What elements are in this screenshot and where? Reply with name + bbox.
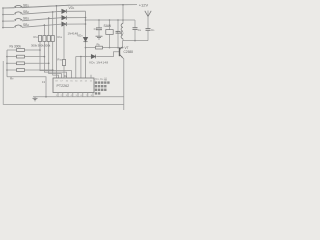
node rail drop <box>122 4 124 6</box>
svg-text:R6 300k: R6 300k <box>10 44 22 48</box>
node bus row4 <box>85 23 87 25</box>
+12V rail wire <box>3 5 137 8</box>
node oscline rail drop <box>122 19 124 21</box>
wire bank line3 <box>7 62 49 64</box>
svg-text:SB1: SB1 <box>23 4 30 8</box>
wire data line V1 <box>40 36 72 79</box>
node SAW-R5line <box>109 47 111 49</box>
wire row2 <box>3 13 15 15</box>
node line4-V4 <box>52 69 54 71</box>
node bank line2 <box>6 56 8 58</box>
node tank C4 <box>134 40 136 42</box>
resistor R8 <box>17 62 25 65</box>
diode bus wire <box>85 11 87 37</box>
resistor R14 (row rect 4) <box>51 36 54 42</box>
diode VD5 <box>91 55 95 59</box>
wire data line V4 <box>53 12 59 78</box>
svg-text:300k 300k 300k: 300k 300k 300k <box>31 44 51 48</box>
wire bank line1 <box>7 49 40 51</box>
pin stubs bottom <box>58 93 93 97</box>
left bank bus wire <box>6 50 8 77</box>
SAW resonator U2 <box>106 20 113 48</box>
node oscline C1 <box>98 19 100 21</box>
pushbutton SB1 <box>14 5 22 8</box>
svg-text:L: L <box>117 30 119 34</box>
ground C1 <box>96 36 103 39</box>
wire pin drop x75.8 <box>75 57 77 79</box>
transistor VT <box>120 47 123 58</box>
oscillator supply line wire <box>86 19 136 21</box>
node oscline SAW <box>109 19 111 21</box>
pin stub top p8 <box>90 75 92 78</box>
wire collector <box>122 41 124 48</box>
wire VD2 to bus <box>66 17 85 19</box>
node line1-V1 <box>39 49 41 51</box>
inductor L <box>121 20 123 41</box>
svg-text:VD5 1N4148: VD5 1N4148 <box>89 60 108 64</box>
node bus row3 <box>85 17 87 19</box>
node row4-bus <box>2 27 4 29</box>
wire tank bottom line <box>123 40 148 42</box>
node R5line-collector <box>122 47 124 49</box>
wire rail drop to tank <box>122 5 124 20</box>
node row1-bus <box>2 7 4 9</box>
svg-text:C2588: C2588 <box>124 50 134 54</box>
wire data line V3 <box>49 18 62 78</box>
node row2-V4 <box>52 11 54 13</box>
resistor R10 <box>62 60 65 66</box>
capacitor C4 <box>133 20 138 41</box>
IC U1 PT2262 <box>53 78 94 93</box>
wire emitter down <box>123 58 124 110</box>
diode VD2 <box>62 16 67 20</box>
note text block <box>95 76 110 95</box>
node row4-R10 <box>63 23 65 25</box>
svg-text:SB2: SB2 <box>23 10 30 14</box>
resistor R5 <box>96 46 103 49</box>
wire dout line B <box>76 56 92 58</box>
node bank line4 <box>6 69 8 71</box>
pushbutton SB3 <box>14 18 22 21</box>
node oscline C2 <box>117 19 119 21</box>
figure border left <box>3 61 124 104</box>
node row1-V5 <box>56 5 58 7</box>
diode VD4 <box>83 37 87 41</box>
pin numbers top <box>55 80 92 82</box>
pin numbers bottom <box>56 95 93 97</box>
wire bank ground leg <box>7 77 46 97</box>
svg-text:(C1,C4 是: (C1,C4 是 <box>95 76 108 81</box>
capacitor C2 <box>116 20 121 48</box>
node gnd-bankleg <box>45 96 47 98</box>
wire row4 <box>3 27 15 29</box>
node bank line3 <box>6 63 8 65</box>
node row2-bus <box>2 14 4 16</box>
node row3-bus <box>2 20 4 22</box>
diode VD3 <box>62 22 67 26</box>
node bus oscline <box>85 19 87 21</box>
resistor R12 (row rect 2) <box>43 36 46 42</box>
wire data line V2 <box>44 25 66 78</box>
wire VD3 to bus <box>66 23 85 25</box>
svg-text:PT2262: PT2262 <box>57 84 70 88</box>
resistor R9 <box>17 69 25 72</box>
wire row3 <box>3 20 15 22</box>
svg-text:SAW: SAW <box>104 24 112 28</box>
wire row1 <box>3 7 15 9</box>
diode VD1 <box>62 9 67 13</box>
wire VD1 to bus <box>66 10 85 12</box>
wire R5 line <box>86 47 123 49</box>
node C2-R5line <box>117 47 119 49</box>
svg-text:SB4: SB4 <box>23 23 30 27</box>
wire R10 line <box>63 24 65 59</box>
svg-text:+12V: +12V <box>139 2 149 7</box>
wire ground bus <box>33 96 124 98</box>
pushbutton SB4 <box>14 25 22 28</box>
node row4-V2 <box>44 24 46 26</box>
resistor R6 <box>17 49 25 52</box>
resistor R11 (row rect 1) <box>38 36 41 42</box>
node bus lineB <box>85 56 87 58</box>
capacitor C5 <box>146 29 151 41</box>
left supply bus wire <box>2 8 4 28</box>
node lineB x80.9 <box>80 56 82 58</box>
pushbutton SB2 <box>14 12 22 15</box>
antenna W1 <box>145 11 151 29</box>
svg-text:SB3: SB3 <box>23 17 30 21</box>
wire pin drop x80.9 <box>80 57 82 79</box>
wire bank line2 <box>7 56 44 58</box>
resistor R13 (row rect 3) <box>47 36 50 42</box>
node line2-V2 <box>44 56 46 58</box>
resistor R7 <box>17 55 25 58</box>
ground symbol <box>33 97 38 101</box>
node bus R5line <box>85 47 87 49</box>
node row3-V3 <box>48 17 50 19</box>
capacitor C1 <box>96 20 102 36</box>
paper background <box>0 0 160 110</box>
node line3-V3 <box>48 63 50 65</box>
wire data line V5 <box>55 6 57 78</box>
wire bank line4 <box>7 69 53 71</box>
